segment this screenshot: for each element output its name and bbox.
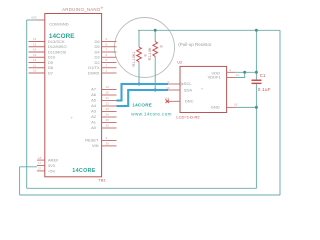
power pin numbers <box>38 156 42 171</box>
pin D12 stub <box>29 46 45 48</box>
net +5V: wire bottom horizontal <box>20 194 280 196</box>
pin D3 stub <box>102 56 117 58</box>
svg-text:1: 1 <box>106 69 108 73</box>
svg-text:2: 2 <box>106 63 108 67</box>
svg-text:D6: D6 <box>94 39 100 44</box>
pin DNC stub with no-connect <box>167 100 180 102</box>
svg-text:www.14core.com: www.14core.com <box>131 111 172 116</box>
svg-text:14CORE: 14CORE <box>132 103 152 108</box>
right D pin names <box>88 39 101 75</box>
wire SDA bus (thick) <box>117 90 169 106</box>
svg-text:26: 26 <box>106 124 110 128</box>
svg-text:D8: D8 <box>48 65 54 70</box>
net GND: wire bottom horizontal <box>27 187 257 189</box>
svg-text:15: 15 <box>33 42 37 46</box>
pin D4 stub <box>102 51 117 53</box>
pin D6 stub <box>102 41 117 43</box>
svg-text:8: 8 <box>144 54 148 56</box>
svg-text:U2: U2 <box>177 59 183 64</box>
svg-text:(Pull-up Resistor: (Pull-up Resistor <box>178 42 212 47</box>
svg-text:30: 30 <box>106 142 110 146</box>
svg-text:D5: D5 <box>94 44 100 49</box>
svg-text:9: 9 <box>167 80 169 84</box>
pin A7 stub <box>102 89 117 91</box>
svg-text:14CORE: 14CORE <box>72 168 95 174</box>
pin D1/TX stub <box>102 67 117 69</box>
net GND: wire right vertical up to C1 <box>255 84 257 188</box>
junction R2 on SDA <box>154 89 157 92</box>
net +5V: wire left vertical <box>19 167 21 195</box>
pin D8 stub <box>29 67 45 69</box>
pin D10 stub <box>29 56 45 58</box>
svg-text:SDA: SDA <box>184 87 193 92</box>
svg-text:A7: A7 <box>91 87 97 92</box>
pin GND stub <box>227 106 235 108</box>
IC U2 LCD box <box>180 66 227 112</box>
svg-text:AREF: AREF <box>48 158 59 163</box>
resistor R2 zigzag <box>153 42 158 57</box>
svg-text:19: 19 <box>106 85 110 89</box>
svg-text:24: 24 <box>106 113 110 117</box>
wire resistor R2 bottom lead to SDA <box>154 56 156 90</box>
svg-text:8: 8 <box>106 42 108 46</box>
svg-text:23: 23 <box>106 107 110 111</box>
svg-text:14: 14 <box>236 73 240 77</box>
pin A1 stub <box>102 122 117 124</box>
svg-text:+5V: +5V <box>48 168 56 173</box>
pin A0 stub <box>102 127 117 129</box>
wire resistor R2 top lead <box>154 30 156 41</box>
svg-text:154: 154 <box>164 96 169 100</box>
op module U1 Arduino Nano box <box>45 14 102 177</box>
svg-text:11: 11 <box>33 63 36 67</box>
pin SDA stub <box>168 89 180 91</box>
svg-text:22: 22 <box>106 102 110 106</box>
svg-text:13: 13 <box>33 53 37 57</box>
pin A4 stub <box>102 105 117 107</box>
pin SCL stub <box>168 83 180 85</box>
svg-text:0.1uF: 0.1uF <box>258 87 271 92</box>
left pin names <box>48 39 67 75</box>
pin AREF stub <box>37 159 45 161</box>
svg-text:D1/TX: D1/TX <box>88 65 100 70</box>
svg-text:20: 20 <box>106 91 110 95</box>
svg-text:RESET: RESET <box>85 138 99 143</box>
svg-text:D9: D9 <box>48 60 54 65</box>
svg-text:2: 2 <box>230 68 232 72</box>
svg-text:21: 21 <box>106 96 110 100</box>
wire resistor R1 bottom lead to SCL <box>138 62 140 84</box>
decorative circle highlight <box>115 18 175 78</box>
svg-text:3: 3 <box>106 136 108 140</box>
svg-text:4/29: 4/29 <box>31 15 37 19</box>
pin VDD stub <box>227 71 235 73</box>
pin D11 stub <box>29 51 45 53</box>
svg-text:A1: A1 <box>91 120 97 125</box>
right A pins group <box>102 90 117 129</box>
svg-text:D2: D2 <box>94 60 100 65</box>
pin D7 stub <box>29 72 45 74</box>
pin D2 stub <box>102 62 117 64</box>
junction GND at C1 column <box>255 106 258 109</box>
svg-text:R1-10K: R1-10K <box>148 47 152 60</box>
wire SCL bus (thick) <box>117 84 169 101</box>
svg-text:+: + <box>201 86 204 91</box>
net GND: wire from COM/GND pin <box>27 19 37 21</box>
svg-text:14: 14 <box>33 48 37 52</box>
svg-text:COM/GND: COM/GND <box>49 22 68 27</box>
pin VDDF1 stub <box>227 77 235 79</box>
power pin names <box>48 158 59 174</box>
pin D0/RX stub <box>102 72 117 74</box>
pin D5 stub <box>102 46 117 48</box>
svg-text:TB1: TB1 <box>98 178 106 183</box>
capacitor C1 plates <box>252 80 262 82</box>
svg-text:17: 17 <box>38 161 42 165</box>
svg-text:D0/RX: D0/RX <box>88 70 100 75</box>
net +5V: wire to +5V pin <box>20 166 37 168</box>
svg-text:R1-10K1: R1-10K1 <box>132 52 136 67</box>
svg-text:10: 10 <box>33 69 37 73</box>
pin VIN stub <box>102 145 117 147</box>
svg-text:18: 18 <box>38 156 42 160</box>
svg-text:9: 9 <box>106 37 108 41</box>
no-connect X on DNC <box>166 100 169 103</box>
LCD pin numbers <box>164 68 239 106</box>
svg-text:A4: A4 <box>91 103 97 108</box>
right A pin names <box>91 87 97 131</box>
pin A3 stub <box>102 111 117 113</box>
svg-text:ARDUINO_NANO: ARDUINO_NANO <box>62 7 101 12</box>
svg-text:D4: D4 <box>94 49 100 54</box>
svg-text:D11/MOSI: D11/MOSI <box>48 49 66 54</box>
left D pins group <box>29 42 45 74</box>
pin 3V3 stub <box>37 165 45 167</box>
svg-text:C1: C1 <box>260 73 266 78</box>
junction R1 on SCL <box>138 83 141 86</box>
svg-text:D13/SCK: D13/SCK <box>48 39 65 44</box>
clock mark on SCL <box>180 82 183 85</box>
svg-text:27: 27 <box>38 167 42 171</box>
svg-text:5: 5 <box>106 58 108 62</box>
svg-text:16: 16 <box>33 37 37 41</box>
pin D13 stub <box>29 41 45 43</box>
svg-text:A3: A3 <box>91 109 97 114</box>
svg-text:A0: A0 <box>91 125 97 130</box>
svg-text:6: 6 <box>106 53 108 57</box>
svg-text:7: 7 <box>106 48 108 52</box>
svg-text:D12/MISO: D12/MISO <box>48 44 67 49</box>
right D pins group <box>102 42 117 74</box>
svg-text:GND: GND <box>211 104 220 109</box>
svg-text:D3: D3 <box>94 55 100 60</box>
svg-text:A2: A2 <box>91 114 97 119</box>
right D pin numbers <box>106 37 108 72</box>
net +5V: wire right vertical <box>279 30 281 195</box>
svg-text:+: + <box>71 116 74 121</box>
pin D9 stub <box>29 62 45 64</box>
right A pin numbers <box>106 85 110 128</box>
svg-text:A5: A5 <box>91 98 97 103</box>
svg-text:A6: A6 <box>91 92 97 97</box>
pin RESET stub <box>102 140 117 142</box>
junction VDD column <box>255 71 258 74</box>
svg-text:VDDF1: VDDF1 <box>208 74 222 79</box>
svg-text:DNC: DNC <box>185 99 194 104</box>
net GND: wire from LCD GND pin <box>235 106 256 108</box>
wire resistor R1 top lead <box>138 30 140 47</box>
net VDD: wire from VDD pin to column <box>235 71 256 73</box>
LCD pin names <box>184 70 222 109</box>
svg-text:16: 16 <box>234 102 238 106</box>
net GND: wire left vertical <box>26 20 28 188</box>
resistor R1 zigzag <box>137 47 142 62</box>
svg-text:25: 25 <box>106 118 110 122</box>
svg-text:10: 10 <box>166 86 170 90</box>
svg-text:3V3: 3V3 <box>48 163 56 168</box>
left pin numbers <box>33 37 37 72</box>
net +5V: wire top horizontal <box>138 29 280 31</box>
left power pins group <box>37 160 45 171</box>
junction R2 top <box>154 29 157 32</box>
pin A5 stub <box>102 100 117 102</box>
junction VDD branch <box>243 71 246 74</box>
pin A6 stub <box>102 94 117 96</box>
svg-text:8: 8 <box>160 45 164 47</box>
pin +5V stub <box>37 170 45 172</box>
svg-text:D7: D7 <box>48 70 54 75</box>
net +5V: wire drop to C1/VDD column <box>255 30 257 79</box>
Arduino title <box>101 7 102 8</box>
svg-text:D10: D10 <box>48 55 56 60</box>
svg-text:SCL: SCL <box>184 81 193 86</box>
pin COM/GND stub <box>37 19 45 21</box>
svg-text:VIN: VIN <box>92 143 99 148</box>
pin A2 stub <box>102 116 117 118</box>
junction at +5V column <box>255 29 258 32</box>
svg-text:LCD=1-D-R2: LCD=1-D-R2 <box>176 114 200 119</box>
svg-text:12: 12 <box>33 58 37 62</box>
net VDD: branch to VDDF1 pin <box>235 72 245 77</box>
